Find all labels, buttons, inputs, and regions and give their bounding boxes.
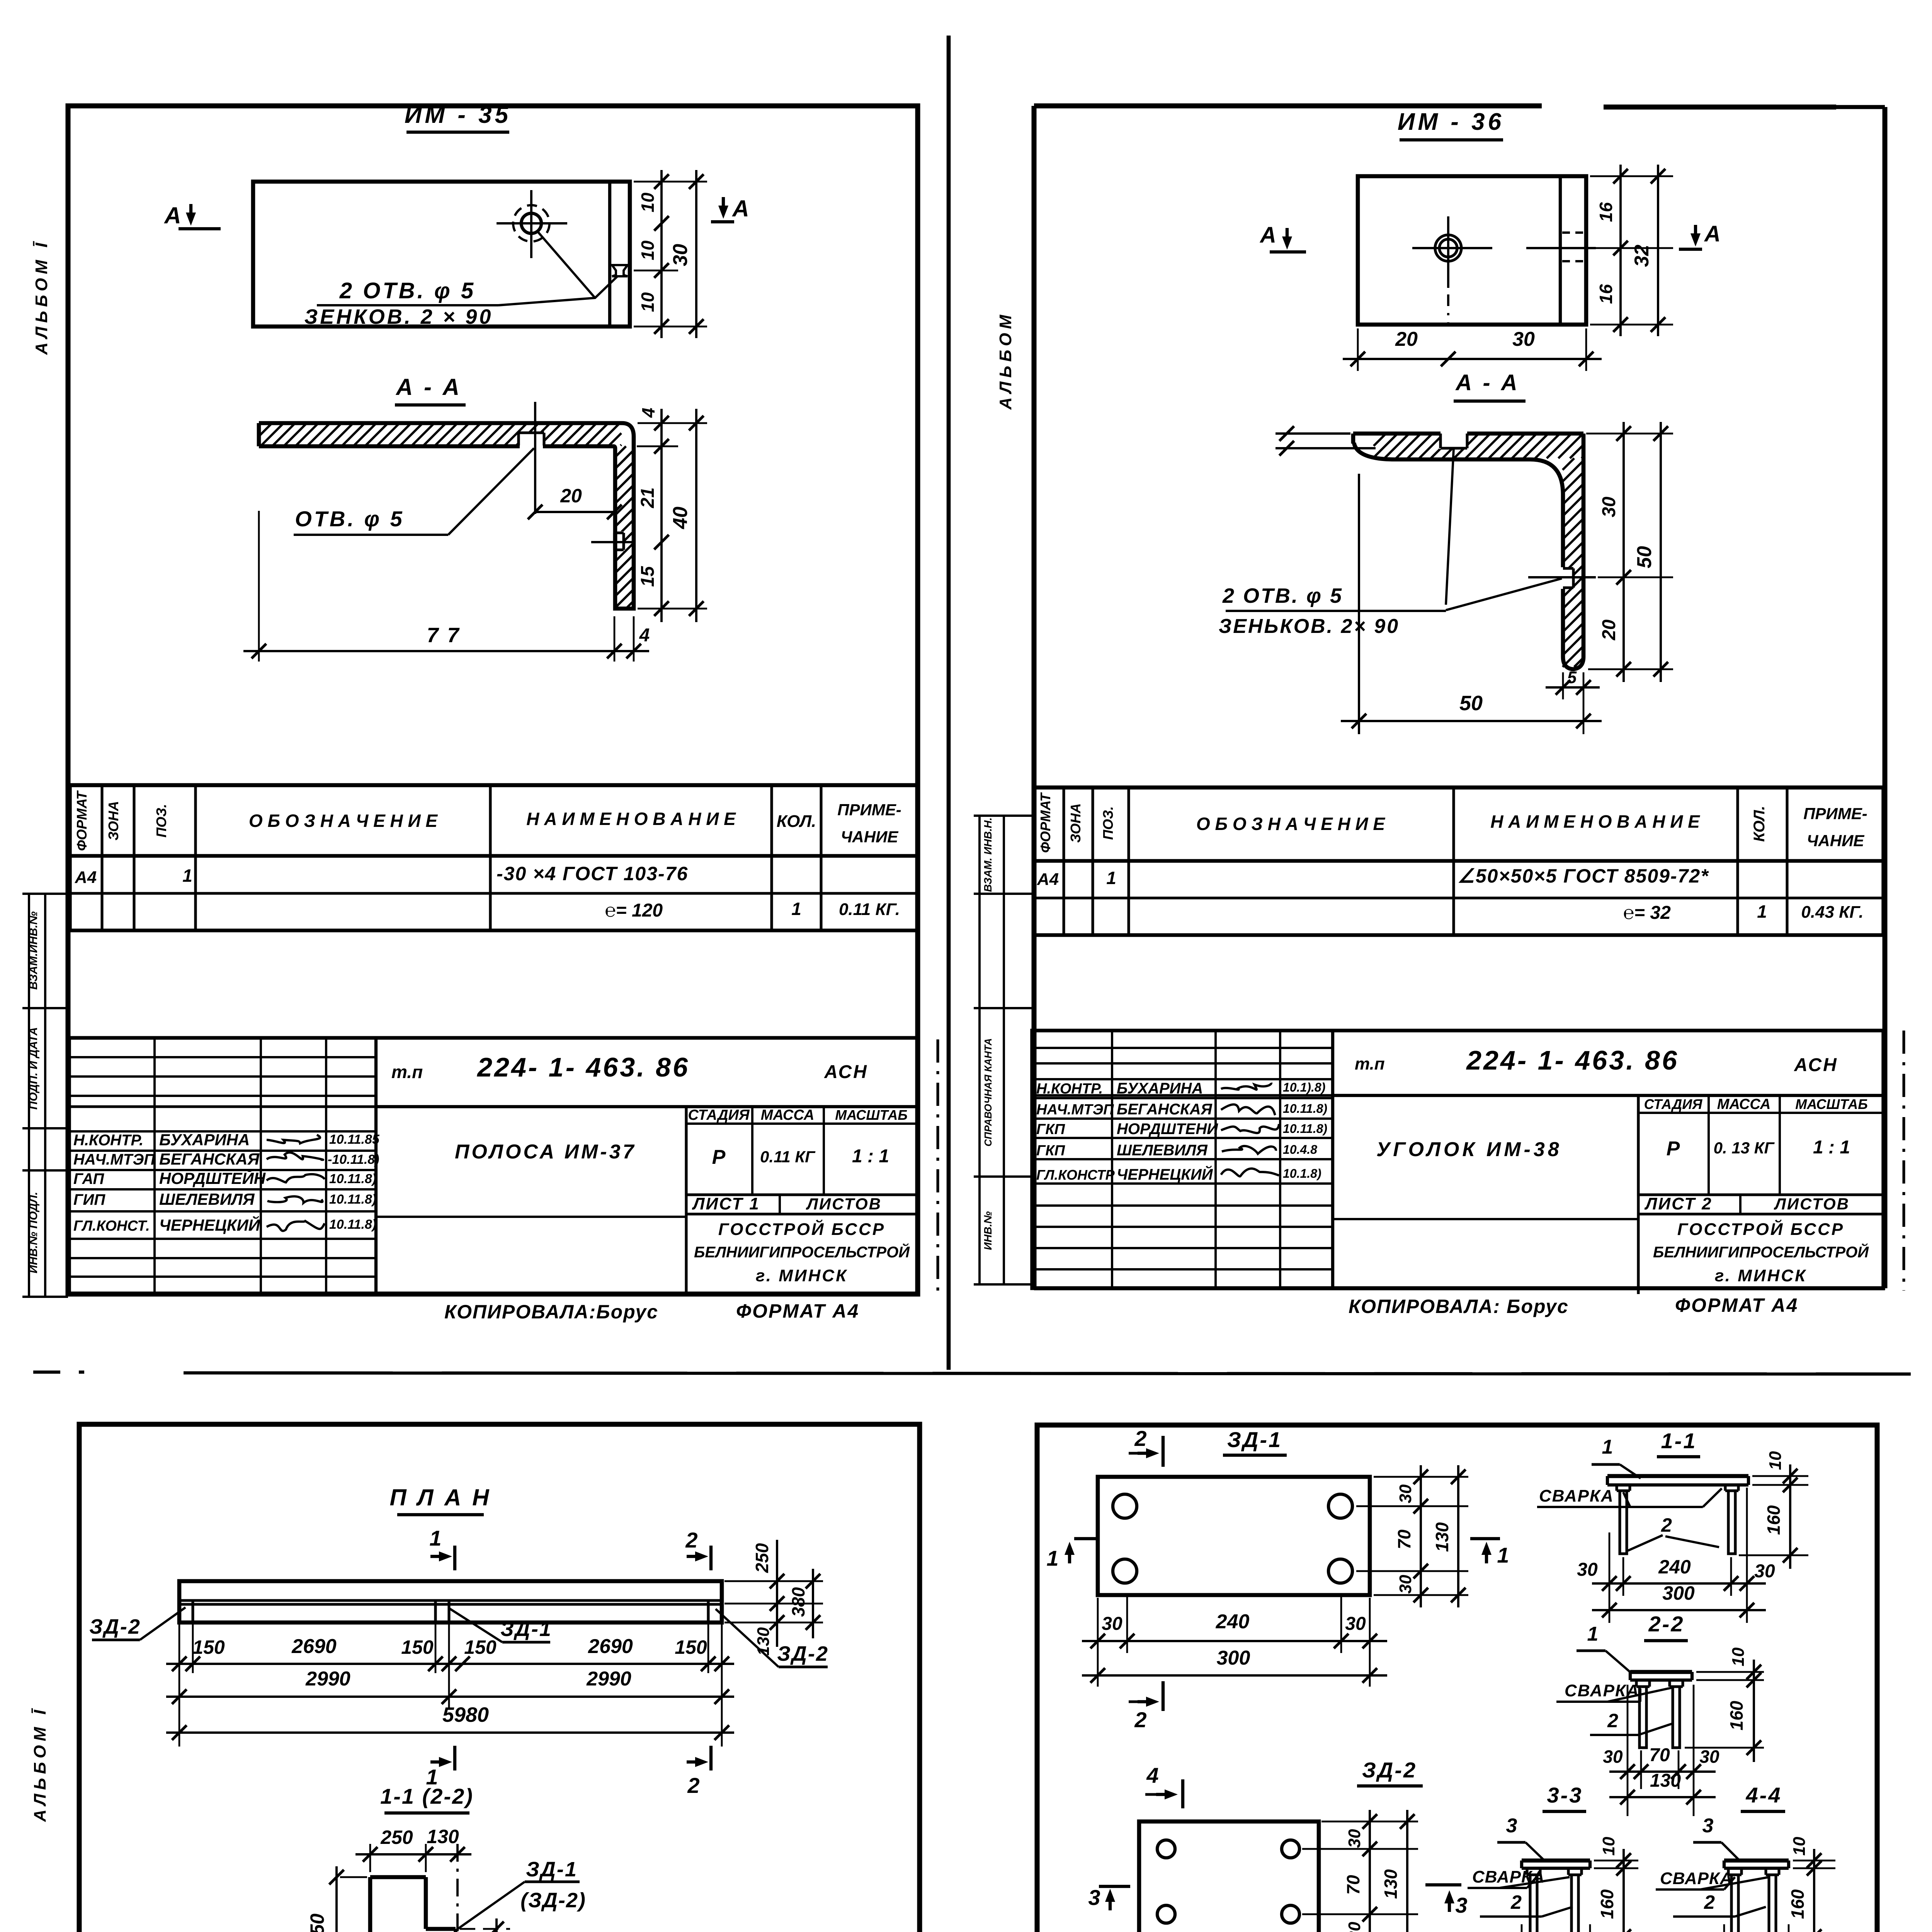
- svg-text:т.п: т.п: [391, 1062, 423, 1082]
- svg-text:240: 240: [1216, 1611, 1250, 1633]
- svg-text:1: 1: [1046, 1546, 1058, 1570]
- svg-text:О Б О З Н А Ч Е Н И Е: О Б О З Н А Ч Е Н И Е: [249, 811, 438, 831]
- svg-text:ЗЕНКОВ. 2 × 90: ЗЕНКОВ. 2 × 90: [304, 305, 493, 328]
- svg-text:10.11.8): 10.11.8): [1283, 1122, 1327, 1136]
- svg-text:НАЧ.МТЭП: НАЧ.МТЭП: [1036, 1102, 1114, 1118]
- svg-text:3-3: 3-3: [1547, 1783, 1583, 1807]
- svg-text:О Б О З Н А Ч Е Н И Е: О Б О З Н А Ч Е Н И Е: [1196, 814, 1385, 834]
- svg-text:30: 30: [1345, 1922, 1364, 1932]
- svg-text:А - А: А - А: [1455, 370, 1519, 395]
- svg-text:(ЗД-2): (ЗД-2): [520, 1889, 586, 1912]
- svg-text:ЗОНА: ЗОНА: [105, 801, 121, 840]
- svg-text:30: 30: [1512, 328, 1535, 350]
- svg-text:32: 32: [1631, 245, 1653, 267]
- svg-text:ГЛ.КОНСТР: ГЛ.КОНСТР: [1036, 1167, 1115, 1183]
- svg-text:П Л А Н: П Л А Н: [389, 1485, 491, 1510]
- svg-text:ИМ - 35: ИМ - 35: [405, 102, 511, 128]
- svg-text:70: 70: [1394, 1529, 1414, 1549]
- svg-text:250: 250: [752, 1543, 772, 1573]
- svg-text:160: 160: [1787, 1889, 1808, 1919]
- svg-text:МАССА: МАССА: [1717, 1096, 1771, 1112]
- svg-text:А4: А4: [75, 868, 97, 887]
- svg-text:ПОЗ.: ПОЗ.: [153, 804, 169, 837]
- svg-text:ВЗАМ. ИНВ.Н.: ВЗАМ. ИНВ.Н.: [982, 818, 994, 892]
- svg-text:ГКП: ГКП: [1036, 1121, 1065, 1138]
- svg-text:20: 20: [1599, 619, 1619, 641]
- svg-text:40: 40: [669, 507, 692, 529]
- svg-text:ФОРМАТ: ФОРМАТ: [1037, 792, 1053, 853]
- svg-text:160: 160: [1726, 1701, 1747, 1730]
- svg-text:АСН: АСН: [824, 1062, 868, 1082]
- svg-text:2690: 2690: [588, 1635, 633, 1658]
- svg-text:0. 13 КГ: 0. 13 КГ: [1714, 1139, 1775, 1157]
- svg-text:1: 1: [1602, 1436, 1613, 1458]
- svg-text:1 : 1: 1 : 1: [852, 1146, 889, 1167]
- svg-text:150: 150: [192, 1636, 225, 1658]
- svg-text:℮= 120: ℮= 120: [605, 900, 663, 921]
- svg-text:КОПИРОВАЛА:Борус: КОПИРОВАЛА:Борус: [444, 1301, 658, 1323]
- svg-text:1: 1: [791, 899, 801, 919]
- svg-text:ЧАНИЕ: ЧАНИЕ: [841, 828, 899, 846]
- svg-text:КОЛ.: КОЛ.: [777, 812, 816, 831]
- svg-text:130: 130: [754, 1627, 773, 1656]
- svg-text:БУХАРИНА: БУХАРИНА: [159, 1131, 250, 1149]
- svg-text:АЛЬБОМ Ī: АЛЬБОМ Ī: [32, 239, 51, 355]
- svg-text:А: А: [163, 202, 181, 228]
- svg-text:А: А: [1704, 221, 1721, 247]
- svg-text:Р: Р: [1667, 1138, 1680, 1160]
- svg-text:ФОРМАТ: ФОРМАТ: [74, 790, 90, 851]
- svg-text:ЗД-2: ЗД-2: [777, 1642, 829, 1665]
- svg-text:30: 30: [1396, 1575, 1415, 1594]
- svg-text:30: 30: [1345, 1614, 1366, 1634]
- svg-text:0.11 КГ.: 0.11 КГ.: [839, 900, 900, 919]
- svg-text:Н.КОНТР.: Н.КОНТР.: [73, 1132, 143, 1149]
- svg-text:т.п: т.п: [1355, 1054, 1385, 1073]
- svg-text:30: 30: [1754, 1561, 1775, 1582]
- svg-text:10.11.85: 10.11.85: [329, 1132, 380, 1147]
- svg-text:1: 1: [1757, 901, 1767, 922]
- svg-text:10.11.8): 10.11.8): [329, 1172, 376, 1186]
- svg-text:2: 2: [1134, 1708, 1146, 1732]
- svg-text:380: 380: [788, 1587, 808, 1617]
- svg-text:300: 300: [1217, 1647, 1250, 1669]
- svg-text:10.11.8): 10.11.8): [1283, 1102, 1327, 1116]
- svg-text:4: 4: [639, 625, 650, 646]
- svg-text:∠50×50×5 ГОСТ 8509-72*: ∠50×50×5 ГОСТ 8509-72*: [1458, 865, 1709, 887]
- svg-text:МАСШТАБ: МАСШТАБ: [1795, 1096, 1868, 1112]
- svg-text:НОРДШТЕНИ: НОРДШТЕНИ: [1117, 1121, 1218, 1138]
- svg-text:ПОДП. И ДАТА: ПОДП. И ДАТА: [27, 1027, 40, 1110]
- svg-text:-30 ×4 ГОСТ 103-76: -30 ×4 ГОСТ 103-76: [497, 863, 688, 884]
- svg-text:130: 130: [427, 1826, 459, 1847]
- svg-text:10.1).8): 10.1).8): [1283, 1080, 1325, 1094]
- svg-text:2990: 2990: [305, 1668, 350, 1690]
- svg-text:А: А: [1259, 223, 1276, 248]
- svg-text:СПРАВОЧНАЯ КАНТА: СПРАВОЧНАЯ КАНТА: [982, 1038, 994, 1146]
- svg-text:НОРДШТЕЙН: НОРДШТЕЙН: [159, 1168, 266, 1187]
- svg-text:ГОССТРОЙ БССР: ГОССТРОЙ БССР: [718, 1219, 885, 1239]
- svg-text:30: 30: [1102, 1614, 1122, 1634]
- svg-text:А4: А4: [1037, 870, 1059, 889]
- svg-text:1: 1: [1497, 1543, 1509, 1567]
- svg-text:ЗД-1: ЗД-1: [500, 1617, 552, 1641]
- svg-text:ЛИСТ 2: ЛИСТ 2: [1644, 1194, 1713, 1213]
- svg-text:А - А: А - А: [395, 374, 462, 400]
- svg-text:30: 30: [1599, 497, 1619, 517]
- svg-text:МАСШТАБ: МАСШТАБ: [835, 1107, 908, 1123]
- svg-text:70: 70: [1649, 1745, 1670, 1765]
- svg-text:ГОССТРОЙ БССР: ГОССТРОЙ БССР: [1677, 1219, 1844, 1239]
- svg-text:℮= 32: ℮= 32: [1623, 903, 1671, 923]
- svg-text:2: 2: [685, 1528, 697, 1552]
- svg-text:КОЛ.: КОЛ.: [1751, 806, 1768, 842]
- svg-text:ОТВ. φ 5: ОТВ. φ 5: [295, 507, 404, 531]
- svg-text:СТАДИЯ: СТАДИЯ: [1644, 1096, 1702, 1112]
- svg-text:300: 300: [1662, 1582, 1695, 1604]
- svg-text:10.4.8: 10.4.8: [1283, 1143, 1317, 1156]
- svg-text:0.11 КГ: 0.11 КГ: [760, 1148, 816, 1166]
- svg-text:Н А И М Е Н О В А Н И Е: Н А И М Е Н О В А Н И Е: [1490, 811, 1700, 832]
- svg-text:ГКП: ГКП: [1036, 1143, 1065, 1159]
- svg-text:БЕЛНИИГИПРОСЕЛЬСТРОЙ: БЕЛНИИГИПРОСЕЛЬСТРОЙ: [694, 1243, 910, 1261]
- svg-text:ЗД-2: ЗД-2: [89, 1615, 141, 1638]
- svg-text:УГОЛОК ИМ-38: УГОЛОК ИМ-38: [1376, 1138, 1562, 1161]
- svg-text:70: 70: [1343, 1875, 1363, 1895]
- svg-text:г. МИНСК: г. МИНСК: [756, 1266, 848, 1285]
- svg-text:А: А: [731, 196, 749, 221]
- svg-text:ИНВ.№ ПОДЛ.: ИНВ.№ ПОДЛ.: [27, 1192, 40, 1273]
- svg-text:15: 15: [638, 566, 658, 587]
- svg-text:ЗД-1: ЗД-1: [526, 1858, 578, 1881]
- svg-text:10.11.8): 10.11.8): [329, 1192, 376, 1207]
- svg-text:ШЕЛЕВИЛЯ: ШЕЛЕВИЛЯ: [1117, 1142, 1208, 1159]
- svg-text:ПРИМЕ-: ПРИМЕ-: [1803, 804, 1867, 823]
- svg-text:1 : 1: 1 : 1: [1813, 1137, 1850, 1158]
- svg-text:2: 2: [1661, 1514, 1672, 1536]
- svg-text:10.11.8): 10.11.8): [329, 1217, 376, 1232]
- svg-text:10: 10: [638, 292, 658, 312]
- svg-text:НАЧ.МТЭП: НАЧ.МТЭП: [73, 1151, 155, 1168]
- svg-text:3: 3: [1088, 1885, 1100, 1910]
- svg-text:ЧЕРНЕЦКИЙ: ЧЕРНЕЦКИЙ: [159, 1215, 260, 1234]
- svg-text:10: 10: [1729, 1647, 1748, 1666]
- svg-text:50: 50: [1459, 692, 1483, 715]
- svg-text:ПРИМЕ-: ПРИМЕ-: [837, 801, 901, 819]
- svg-text:ЗОНА: ЗОНА: [1068, 803, 1083, 843]
- svg-text:16: 16: [1596, 284, 1616, 304]
- svg-text:2: 2: [1607, 1710, 1618, 1731]
- svg-text:ШЕЛЕВИЛЯ: ШЕЛЕВИЛЯ: [159, 1190, 255, 1208]
- svg-text:130: 130: [1432, 1522, 1452, 1552]
- svg-text:2 ОТВ. φ 5: 2 ОТВ. φ 5: [1222, 584, 1343, 607]
- svg-text:10.1.8): 10.1.8): [1283, 1167, 1321, 1180]
- svg-text:ГЛ.КОНСТ.: ГЛ.КОНСТ.: [73, 1218, 150, 1234]
- svg-text:2: 2: [1704, 1891, 1715, 1913]
- svg-text:Н.КОНТР.: Н.КОНТР.: [1036, 1081, 1103, 1097]
- svg-text:3: 3: [1702, 1815, 1714, 1837]
- svg-text:2990: 2990: [586, 1668, 631, 1690]
- svg-text:50: 50: [1633, 546, 1656, 568]
- svg-text:ГИП: ГИП: [73, 1191, 105, 1208]
- svg-text:10: 10: [1766, 1451, 1785, 1470]
- svg-text:2: 2: [1510, 1891, 1522, 1913]
- svg-text:1: 1: [182, 866, 192, 886]
- svg-text:224- 1- 463. 86: 224- 1- 463. 86: [1466, 1045, 1679, 1075]
- svg-text:БЕГАНСКАЯ: БЕГАНСКАЯ: [159, 1150, 260, 1168]
- svg-text:150: 150: [401, 1636, 434, 1658]
- svg-text:21: 21: [638, 487, 658, 508]
- svg-text:ИМ - 36: ИМ - 36: [1398, 109, 1504, 135]
- svg-text:КОПИРОВАЛА: Борус: КОПИРОВАЛА: Борус: [1349, 1296, 1569, 1317]
- svg-text:5: 5: [1567, 668, 1577, 687]
- svg-text:1: 1: [1587, 1623, 1599, 1645]
- svg-text:ЧАНИЕ: ЧАНИЕ: [1807, 832, 1865, 850]
- svg-text:160: 160: [1597, 1889, 1617, 1919]
- svg-text:3: 3: [1455, 1893, 1467, 1917]
- svg-text:2690: 2690: [291, 1635, 337, 1658]
- svg-text:30: 30: [1345, 1829, 1364, 1848]
- svg-text:4: 4: [1146, 1763, 1158, 1787]
- svg-text:ГАП: ГАП: [73, 1170, 104, 1187]
- svg-text:30: 30: [1577, 1560, 1598, 1580]
- svg-text:10: 10: [638, 192, 658, 213]
- svg-text:1: 1: [429, 1526, 441, 1550]
- svg-text:ЛИСТОВ: ЛИСТОВ: [1774, 1195, 1850, 1213]
- svg-text:3: 3: [1506, 1815, 1517, 1837]
- svg-text:2-2: 2-2: [1648, 1612, 1685, 1636]
- svg-text:7 7: 7 7: [427, 624, 460, 647]
- svg-text:30: 30: [1699, 1747, 1719, 1767]
- svg-text:2: 2: [687, 1773, 699, 1798]
- svg-text:16: 16: [1596, 202, 1616, 222]
- svg-text:ЗЕНЬКОВ. 2× 90: ЗЕНЬКОВ. 2× 90: [1219, 615, 1400, 638]
- svg-text:АСН: АСН: [1794, 1055, 1838, 1075]
- svg-text:СВАРКА: СВАРКА: [1539, 1486, 1614, 1505]
- svg-text:ЛИСТОВ: ЛИСТОВ: [806, 1195, 882, 1213]
- svg-text:4: 4: [638, 408, 658, 418]
- svg-text:ЧЕРНЕЦКИЙ: ЧЕРНЕЦКИЙ: [1117, 1165, 1213, 1183]
- svg-text:10: 10: [1599, 1837, 1618, 1855]
- svg-text:20: 20: [1395, 328, 1418, 350]
- svg-text:150: 150: [464, 1636, 497, 1658]
- svg-text:ПОЛОСА ИМ-37: ПОЛОСА ИМ-37: [455, 1141, 636, 1163]
- svg-text:1-1 (2-2): 1-1 (2-2): [380, 1784, 474, 1808]
- svg-text:СТАДИЯ: СТАДИЯ: [688, 1107, 750, 1123]
- svg-text:ЗД-2: ЗД-2: [1362, 1758, 1417, 1782]
- svg-text:150: 150: [675, 1636, 707, 1658]
- svg-text:5980: 5980: [442, 1703, 489, 1726]
- svg-text:ФОРМАТ А4: ФОРМАТ А4: [1675, 1294, 1798, 1316]
- svg-text:30: 30: [1396, 1484, 1415, 1503]
- svg-text:30: 30: [669, 244, 692, 266]
- svg-text:240: 240: [1658, 1556, 1691, 1578]
- svg-text:БУХАРИНА: БУХАРИНА: [1117, 1080, 1203, 1097]
- svg-text:г. МИНСК: г. МИНСК: [1715, 1266, 1807, 1285]
- svg-text:ФОРМАТ А4: ФОРМАТ А4: [736, 1300, 859, 1322]
- svg-text:450: 450: [306, 1913, 328, 1932]
- svg-text:ПОЗ.: ПОЗ.: [1100, 806, 1116, 840]
- svg-text:130: 130: [1381, 1869, 1401, 1899]
- svg-text:БЕГАНСКАЯ: БЕГАНСКАЯ: [1117, 1101, 1213, 1118]
- svg-text:20: 20: [560, 485, 582, 507]
- svg-text:0.43 КГ.: 0.43 КГ.: [1801, 903, 1863, 922]
- svg-text:ИНВ.№: ИНВ.№: [982, 1211, 994, 1250]
- svg-text:1-1: 1-1: [1661, 1429, 1697, 1453]
- svg-text:250: 250: [380, 1827, 413, 1848]
- svg-text:224- 1- 463. 86: 224- 1- 463. 86: [476, 1052, 690, 1082]
- svg-text:Н А И М Е Н О В А Н И Е: Н А И М Е Н О В А Н И Е: [526, 809, 736, 829]
- svg-text:160: 160: [1764, 1505, 1784, 1535]
- svg-text:АЛЬБОМ: АЛЬБОМ: [996, 311, 1015, 410]
- svg-text:-10.11.8): -10.11.8): [328, 1152, 379, 1167]
- svg-text:ЗД-1: ЗД-1: [1227, 1427, 1282, 1452]
- svg-text:ЛИСТ 1: ЛИСТ 1: [692, 1194, 760, 1213]
- svg-text:10: 10: [1790, 1837, 1809, 1855]
- svg-text:ВЗАМ.ИНВ.№: ВЗАМ.ИНВ.№: [27, 912, 40, 990]
- svg-text:1: 1: [1106, 868, 1116, 888]
- svg-text:БЕЛНИИГИПРОСЕЛЬСТРОЙ: БЕЛНИИГИПРОСЕЛЬСТРОЙ: [1653, 1243, 1869, 1261]
- svg-text:10: 10: [638, 240, 658, 260]
- svg-text:4-4: 4-4: [1746, 1783, 1782, 1807]
- svg-text:МАССА: МАССА: [761, 1107, 815, 1123]
- svg-text:АЛЬБОМ Ī: АЛЬБОМ Ī: [31, 1706, 49, 1822]
- svg-text:30: 30: [1603, 1747, 1623, 1767]
- svg-text:2: 2: [1134, 1426, 1146, 1451]
- svg-text:Р: Р: [712, 1146, 726, 1168]
- svg-text:2 ОТВ. φ 5: 2 ОТВ. φ 5: [339, 278, 476, 303]
- svg-text:130: 130: [1650, 1770, 1681, 1791]
